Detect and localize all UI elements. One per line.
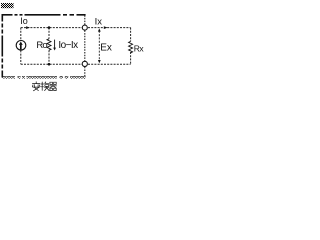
label 変換器 (hand-drawn kanji) — [32, 82, 56, 91]
current arrow Io-Ix (down, through Ro) — [54, 40, 56, 48]
kanji 器 — [50, 82, 57, 90]
current arrow Io on top wire — [26, 26, 30, 29]
svg-text:Ex: Ex — [100, 42, 112, 53]
svg-text:Ix: Ix — [95, 17, 103, 28]
current source CS circle — [16, 41, 26, 51]
svg-text:Rx: Rx — [134, 43, 145, 53]
svg-text:Io: Io — [20, 16, 28, 26]
svg-text:Ro: Ro — [36, 40, 47, 51]
wire top (node between source and loads) — [21, 27, 131, 29]
terminal top — [82, 25, 87, 30]
converter enclosure top border (chain line) — [2, 14, 86, 16]
converter enclosure left border (chain line) — [1, 14, 3, 78]
shield hatch block top-left — [1, 3, 14, 8]
wire Rx branch leads — [130, 28, 132, 65]
junction dot top of Ro — [48, 26, 51, 29]
wire left branch (current source branch) — [20, 28, 22, 65]
kanji 変 — [32, 82, 40, 91]
terminal bottom — [82, 61, 87, 66]
converter enclosure right border (fine dashed) — [84, 15, 86, 77]
voltage arrow Ex (dashed with two heads) — [98, 31, 100, 61]
resistor Ro zigzag — [47, 39, 51, 50]
junction dot bottom of Ro — [48, 63, 51, 66]
wire bottom (return path) — [21, 63, 131, 65]
kanji 換 — [41, 82, 49, 91]
current arrow Ix on top wire — [104, 26, 108, 29]
wire Ro branch leads — [48, 28, 50, 65]
current source arrow (up) — [20, 45, 22, 50]
resistor Rx zigzag — [129, 41, 133, 52]
converter enclosure bottom shield hatch line — [2, 76, 86, 79]
svg-text:Io−Ix: Io−Ix — [58, 40, 78, 51]
